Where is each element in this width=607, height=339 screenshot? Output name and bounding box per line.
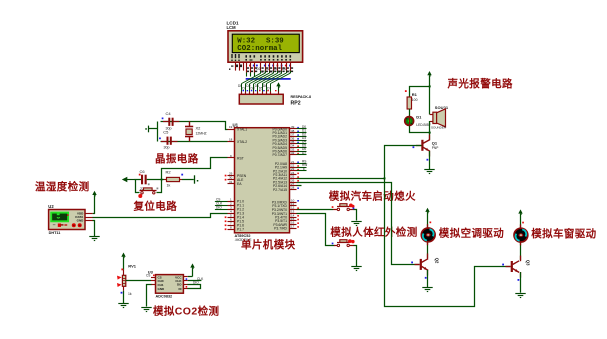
wires bus to RP2 verticals (242, 84, 271, 92)
wire GND pin down (93, 221, 95, 237)
wire RV1 bottom to ground (123, 291, 125, 304)
svg-text:RST: RST (237, 156, 244, 160)
power arrow (motor2) (518, 209, 522, 227)
U1 left pin numbers (229, 125, 233, 229)
svg-text:S:39: S:39 (266, 37, 284, 45)
label 晶振电路 (155, 152, 199, 165)
svg-text:SOUNDER: SOUNDER (431, 126, 447, 130)
U2 green display (51, 213, 68, 222)
svg-text:ADC0832: ADC0832 (156, 295, 173, 299)
svg-text:CO2:normal: CO2:normal (237, 45, 282, 53)
power arrow (RV1 top) (121, 253, 125, 270)
U1 right pin stubs P0 (290, 129, 297, 155)
junction dot (LED join) (429, 132, 431, 134)
svg-text:P3.7/RD: P3.7/RD (274, 227, 287, 231)
capacitor C4 (162, 111, 180, 131)
ground terminal (crystal) (145, 126, 148, 133)
svg-text:C4: C4 (166, 111, 172, 116)
U1 P0 net labels D0-D7 (302, 125, 306, 155)
wire U1 P3.2 to switch1 (297, 209, 334, 211)
label 模拟车窗驱动 (531, 227, 596, 240)
motor M1 (421, 228, 435, 242)
svg-text:模拟车窗驱动: 模拟车窗驱动 (531, 227, 596, 240)
microcontroller U1 (AT89C52) (215, 122, 307, 251)
bus (blue) (246, 78, 291, 80)
U2 inner pin names (75, 212, 84, 223)
junction dot (P2.4 rail) (384, 177, 386, 179)
wire motor1 to Q2 collector (427, 242, 429, 258)
P2.4 net: U1 to Q1 base and Q3 base (297, 146, 511, 307)
svg-text:C5: C5 (163, 130, 169, 135)
wire motor2 to Q3 collector (520, 242, 522, 260)
wire R2 to ground bar (182, 179, 194, 181)
U3 pin names (158, 276, 166, 291)
wire U1 P3.3 to switch2 (297, 214, 335, 246)
pin speck motor1 (430, 222, 432, 224)
svg-text:P1.7: P1.7 (237, 228, 244, 232)
svg-text:模拟人体红外检测: 模拟人体红外检测 (330, 225, 417, 238)
label LCD1 (227, 21, 239, 26)
LCD text line 1 (237, 37, 283, 45)
switch2 (button) (332, 239, 355, 246)
wire Q3 emitter to ground (520, 272, 522, 293)
LCD pins D0-D7 (261, 63, 291, 72)
svg-text:模拟汽车启动熄火: 模拟汽车启动熄火 (329, 189, 416, 202)
svg-text:单片机模块: 单片机模块 (241, 238, 296, 251)
label RESPACK-8 (291, 95, 312, 99)
svg-text:1k: 1k (167, 183, 171, 187)
CO2 simulation section (117, 253, 219, 318)
LCD pins RS RW E (247, 63, 255, 73)
svg-text:30p: 30p (164, 146, 170, 150)
wire speaker bottom to Q1 collector (429, 121, 431, 140)
net labels CS CLK DIO (216, 197, 223, 209)
svg-text:复位电路: 复位电路 (133, 199, 178, 212)
svg-text:18: 18 (229, 138, 233, 142)
wire R1 to LED (409, 109, 411, 116)
wire switch1 to ground (354, 210, 357, 221)
svg-text:GND: GND (77, 219, 85, 223)
svg-text:XTAL2: XTAL2 (237, 140, 247, 144)
crystal X2 (185, 122, 207, 142)
svg-text:温湿度检测: 温湿度检测 (35, 180, 90, 193)
RP2 pin stubs (242, 92, 279, 95)
ground (U3) (141, 308, 151, 312)
power arrow (U3 VCC) (190, 263, 194, 276)
svg-text:DIO: DIO (193, 280, 199, 284)
U1 right pin numbers and specks (291, 125, 295, 228)
svg-text:12MHZ: 12MHZ (196, 132, 207, 136)
U1 body (235, 128, 290, 233)
svg-text:W:32: W:32 (237, 37, 255, 45)
label U3 (148, 269, 154, 274)
label 单片机模块 (241, 238, 296, 251)
LCD data bus wiring to RP2 (238, 67, 311, 107)
svg-text:19: 19 (229, 125, 233, 129)
svg-text:D1: D1 (416, 114, 422, 119)
svg-text:RV1: RV1 (128, 264, 136, 269)
wire C6 to R2 (147, 179, 164, 181)
svg-text:31: 31 (229, 180, 233, 184)
U1 P0 net label wires (297, 129, 307, 155)
wire reset node down to button (157, 180, 162, 193)
LCD pins VSS VDD VEE (236, 63, 244, 71)
human infrared switch section (297, 214, 418, 271)
ground terminal (R2) (195, 175, 199, 183)
svg-text:DIO: DIO (216, 205, 222, 209)
ground (switch2) (351, 267, 361, 271)
power arrow (motor1) (425, 208, 429, 228)
label 温湿度检测 (35, 180, 90, 193)
wire Q1 emitter to ground (429, 151, 431, 169)
resistor R1 (405, 90, 418, 109)
reset circuit (122, 158, 228, 213)
U1 left pin names (237, 128, 247, 232)
wires D0-D7 verticals above bus (261, 71, 291, 74)
net label specks below bus (238, 84, 271, 91)
svg-text:DI: DI (179, 287, 182, 291)
U2 body (49, 210, 85, 230)
svg-text:D7: D7 (267, 86, 271, 90)
svg-text:R2: R2 (166, 169, 172, 174)
label ADC0832 (156, 295, 173, 299)
svg-text:P0.7/AD7: P0.7/AD7 (272, 153, 287, 157)
junction dot (alarm top) (429, 85, 431, 87)
wire diagonals through bus (241, 73, 290, 83)
wire switch2 to ground (354, 246, 357, 267)
svg-text:U1: U1 (233, 122, 239, 127)
svg-text:Q3: Q3 (525, 260, 530, 266)
LCD display LCM1 (LM016L) (227, 21, 303, 77)
svg-text:模拟CO2检测: 模拟CO2检测 (153, 305, 219, 318)
svg-text:RP2: RP2 (291, 101, 301, 107)
ground (switch1) (351, 222, 361, 226)
svg-text:32: 32 (291, 151, 295, 155)
svg-text:C6: C6 (140, 169, 146, 174)
speaker SOUNDER (430, 109, 447, 130)
svg-text:P2.7/A15: P2.7/A15 (273, 188, 287, 192)
wire C6 left down to button (136, 180, 140, 193)
LCD body (228, 31, 303, 62)
crystal oscillator circuit (145, 111, 227, 165)
transistor Q3 (502, 256, 530, 281)
svg-text:晶振电路: 晶振电路 (155, 152, 199, 165)
wire DATA to U1 P1.3 (93, 214, 228, 218)
label AT89C52 (235, 234, 253, 242)
svg-text:CS: CS (146, 273, 150, 277)
svg-text:RESPACK-8: RESPACK-8 (291, 95, 312, 99)
label 复位电路 (133, 199, 178, 212)
ground (Q2) (422, 288, 432, 292)
U1 right pin names (272, 127, 288, 230)
push button (reset key) (138, 188, 158, 199)
label SOU1 (435, 105, 449, 110)
power arrow above RP2 common pin (276, 82, 280, 91)
wire VCC pin to power (93, 213, 95, 215)
svg-text:声光报警电路: 声光报警电路 (447, 77, 513, 90)
LCD pin number specks (229, 65, 293, 73)
power arrow (DHT11 VCC) (92, 191, 96, 214)
svg-text:XTAL1: XTAL1 (237, 128, 247, 132)
U3 left pin stubs (151, 278, 156, 285)
label 模拟人体红外检测 (330, 225, 417, 238)
svg-text:EA: EA (237, 182, 242, 186)
wire U3 DO-DI loop (188, 285, 201, 289)
label RP2 (291, 101, 301, 107)
wire RV1 wiper to U3 (126, 280, 151, 282)
net labels RS RW E (302, 160, 307, 171)
switch1 (button) (332, 204, 355, 211)
svg-text:D7: D7 (302, 151, 306, 155)
LED D1 (405, 114, 432, 127)
transistor Q1 (413, 135, 439, 161)
P2.5 net: U1 to Q2 base (297, 183, 420, 265)
car window drive section (502, 209, 596, 297)
svg-text:GND: GND (158, 287, 166, 291)
svg-text:1k: 1k (128, 292, 132, 296)
LCD screen (232, 34, 299, 52)
wire rail down and across to Q3 base (385, 179, 511, 307)
svg-text:R1: R1 (412, 92, 418, 97)
temperature/humidity sensor U2 (DHT11) (35, 180, 228, 240)
wire left rail (149, 122, 158, 142)
wire U3 GND pin to ground (147, 285, 152, 307)
wire LED bottom to speaker node (410, 126, 430, 133)
svg-text:DHT11: DHT11 (49, 231, 61, 235)
label 声光报警电路 (447, 77, 513, 90)
junction dot reset node (161, 179, 163, 181)
ground (DHT11) (89, 237, 99, 241)
wire reset node to RST pin (162, 158, 228, 180)
wire U3 VCC to power (188, 276, 193, 278)
svg-text:E: E (303, 167, 305, 171)
LCD pin-name strip (231, 54, 291, 61)
net label CS (U3) (146, 273, 155, 277)
LCD text line 2 (237, 45, 282, 53)
net label CLK (U3) (186, 277, 204, 281)
label U2 (48, 204, 54, 209)
svg-text:100: 100 (412, 98, 418, 102)
U1 left pin red specks (225, 175, 227, 230)
capacitor C5 (159, 130, 177, 150)
wire Q2 emitter to ground (427, 270, 429, 287)
ADC U3 (ADC0832) body (156, 275, 184, 294)
pin speck motor2 (522, 222, 524, 224)
wire U3 CLK net label (188, 280, 202, 282)
U3 right pin stubs (183, 277, 187, 289)
net label specks D0-D7 (257, 67, 291, 74)
label LCM (227, 25, 237, 30)
wire RS RW E stubs down (247, 73, 255, 77)
svg-text:Q1: Q1 (432, 141, 438, 146)
capacitor C6 (139, 169, 150, 191)
air conditioner drive section (411, 208, 504, 292)
U2 bottom decorations (53, 223, 82, 227)
label 模拟空调驱动 (439, 226, 504, 239)
svg-text:Q2: Q2 (434, 258, 439, 264)
svg-text:PNP: PNP (432, 146, 439, 150)
car start/stall switch section (297, 189, 417, 225)
svg-text:LCM: LCM (227, 25, 237, 30)
U1 P2.0-P2.2 net label wires (RS RW E) (297, 164, 307, 171)
resistor pack RP2 body (239, 94, 283, 104)
svg-text:28: 28 (291, 186, 295, 190)
wire U1 P2.6 net label stub (297, 185, 302, 187)
wire XTAL2 net (bottom) (161, 141, 228, 143)
svg-text:X2: X2 (196, 126, 202, 131)
net label DIO (U3) (186, 280, 200, 287)
svg-text:模拟空调驱动: 模拟空调驱动 (439, 226, 504, 239)
power terminal (left arrow) (122, 177, 134, 182)
label U1 (233, 122, 239, 127)
svg-text:U2: U2 (48, 204, 54, 209)
wire U1 P2.4 to vertical rail (297, 178, 385, 180)
U1 P1.0-P1.2 net label wires (215, 202, 228, 210)
resistor R2 (164, 169, 183, 187)
wire U1 P2.5 to Q2 base (297, 183, 420, 265)
svg-text:SOU?1: SOU?1 (435, 105, 449, 110)
label 模拟汽车启动熄火 (329, 189, 416, 202)
U1 right pin stubs P3 (290, 203, 297, 229)
ground (Q1) (424, 170, 434, 174)
wire rail up to Q1 base (385, 146, 422, 179)
ground (RV1) (118, 304, 128, 308)
RP2 pin number specks (243, 90, 277, 91)
U2 pin stubs (85, 214, 93, 221)
potentiometer RV1 (117, 264, 137, 296)
label DHT11 (49, 231, 61, 235)
power arrow (alarm) (427, 71, 431, 115)
wire branch to R1 (410, 87, 430, 98)
motor M2 (514, 228, 528, 242)
transistor Q2 (411, 254, 439, 279)
wire power to C6 (134, 179, 141, 181)
svg-text:17: 17 (291, 224, 295, 228)
U1 right pin stubs P2 (290, 164, 297, 190)
wire XTAL1 net (top) (161, 122, 228, 130)
label 模拟CO2检测 (153, 305, 219, 318)
sound-light alarm circuit (405, 71, 513, 174)
U1 left pin stubs (228, 130, 235, 230)
ground (Q3) (515, 294, 525, 298)
